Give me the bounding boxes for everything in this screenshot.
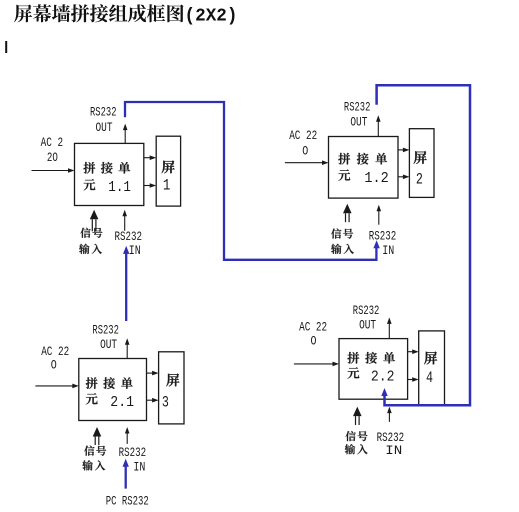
label 信号输入 U1.1	[79, 228, 102, 254]
cursor mark	[5, 41, 7, 53]
svg-text:RS232: RS232	[90, 106, 117, 120]
unit U2.1 label line2 元 2.1	[86, 393, 134, 411]
svg-text:2.2: 2.2	[371, 368, 395, 385]
arrow RS232 IN U2.1	[125, 427, 130, 444]
svg-text:IN: IN	[385, 444, 402, 458]
wire RS232 U2.1-OUT to U1.1-IN	[123, 246, 129, 321]
screen S3 box	[159, 352, 184, 424]
arrow RS232 IN U1.2	[377, 205, 382, 225]
label 信号输入 U2.2	[345, 431, 368, 454]
signal input block-arrow U1.2	[343, 204, 352, 222]
signal input block-arrow U2.1	[93, 427, 102, 445]
svg-text:1.1: 1.1	[108, 179, 131, 196]
svg-text:3: 3	[162, 393, 169, 411]
signal input block-arrow U2.2	[353, 407, 362, 425]
screen S3 label 屏 3	[162, 374, 180, 412]
arrow U1.1 to S1 upper	[144, 155, 156, 160]
wire PC-RS232 to U2.1-IN	[123, 459, 129, 489]
arrow RS232 OUT U2.2	[387, 317, 392, 338]
svg-text:OUT: OUT	[96, 121, 113, 135]
unit U2.2 label line2 元 2.2	[348, 367, 395, 385]
unit U2.2 box	[339, 339, 408, 400]
arrow U2.2 to S4 lower	[408, 377, 419, 382]
label RS232 OUT U2.2	[353, 304, 380, 333]
screen S2 box	[409, 129, 434, 198]
label AC 220 U2.2	[299, 321, 327, 349]
svg-text:RS232: RS232	[115, 230, 143, 244]
label AC 220 U2.1	[41, 345, 69, 372]
unit U1.2 box	[329, 137, 399, 199]
svg-text:AC 2: AC 2	[41, 136, 64, 150]
svg-text:2: 2	[416, 170, 423, 188]
svg-text:O: O	[311, 335, 317, 349]
arrow AC-220 input U2.1	[35, 384, 78, 389]
svg-text:O: O	[302, 145, 308, 159]
label RS232 IN U2.2	[377, 431, 405, 458]
arrow RS232 OUT U2.1	[125, 338, 130, 358]
svg-text:OUT: OUT	[359, 318, 376, 332]
unit U2.1 box	[79, 359, 147, 421]
svg-text:1: 1	[163, 177, 171, 195]
screen S4 label 屏 4	[424, 352, 437, 387]
label 信号输入 U2.1	[82, 446, 106, 471]
label 信号输入 U1.2	[331, 228, 354, 253]
label AC 220 U1.2	[289, 129, 317, 158]
unit U2.1 label line1 拼接单	[86, 377, 133, 389]
wire RS232 U1.1-OUT to U1.2-IN	[125, 102, 380, 260]
label AC 220 U1.1	[41, 136, 64, 165]
arrow AC-220 input U2.2	[294, 362, 339, 367]
arrow RS232 OUT U1.2	[376, 115, 381, 136]
screen S4 box	[419, 331, 445, 406]
svg-text:4: 4	[426, 369, 433, 387]
wire RS232 U1.2-OUT to U2.2-IN	[377, 85, 470, 405]
svg-text:RS232: RS232	[92, 323, 119, 337]
label RS232 OUT U1.1	[90, 106, 117, 136]
arrow RS232 OUT U1.1	[123, 124, 128, 144]
label RS232 OUT U2.1	[92, 323, 119, 351]
svg-text:OUT: OUT	[350, 115, 367, 129]
svg-text:IN: IN	[133, 460, 145, 474]
svg-text:IN: IN	[129, 244, 141, 258]
unit U1.1 label line1 拼接单	[83, 162, 130, 174]
svg-text:RS232: RS232	[377, 431, 405, 445]
svg-text:O: O	[51, 358, 57, 372]
unit U1.2 label line2 元 1.2	[338, 169, 388, 186]
svg-text:PC RS232: PC RS232	[106, 495, 149, 509]
svg-text:1.2: 1.2	[364, 170, 388, 187]
svg-text:AC 22: AC 22	[41, 345, 69, 359]
svg-text:AC 22: AC 22	[299, 321, 327, 335]
unit U1.2 label line1 拼接单	[338, 153, 387, 165]
screen S1 box	[156, 136, 180, 206]
svg-text:RS232: RS232	[344, 101, 371, 115]
label RS232 IN U1.1	[115, 230, 143, 258]
svg-text:RS232: RS232	[353, 304, 380, 318]
svg-text:2.1: 2.1	[110, 394, 134, 411]
arrow U1.1 to S1 lower	[144, 183, 156, 188]
svg-text:IN: IN	[382, 244, 394, 258]
arrow U2.1 to S3 lower	[147, 398, 159, 403]
screen S2 label 屏 2	[414, 151, 427, 188]
title text 屏幕墙拼接组成框图(2X2)	[14, 4, 238, 26]
unit U2.2 label line1 拼接单	[347, 352, 395, 364]
svg-text:AC 22: AC 22	[289, 129, 317, 143]
arrow AC-220 input U1.2	[285, 160, 329, 165]
unit U1.1 label line2 元 1.1	[84, 179, 131, 196]
svg-text:2O: 2O	[47, 151, 58, 165]
label RS232 OUT U1.2	[344, 101, 371, 130]
svg-text:(2X2): (2X2)	[185, 6, 238, 27]
svg-text:RS232: RS232	[119, 446, 147, 460]
arrow RS232 IN U2.2	[387, 407, 392, 422]
label RS232 IN U1.2	[369, 229, 397, 258]
arrow AC-220 input U1.1	[32, 168, 75, 173]
arrow RS232 IN U1.1	[122, 210, 127, 231]
svg-text:OUT: OUT	[100, 338, 117, 352]
arrow U2.1 to S3 upper	[147, 371, 159, 376]
unit U1.1 box	[75, 143, 144, 205]
arrow U1.2 to S2 lower	[398, 175, 409, 180]
screen S1 label 屏 1	[162, 160, 175, 194]
label RS232 IN U2.1	[119, 446, 147, 474]
arrow U2.2 to S4 upper	[408, 349, 419, 354]
label PC RS232	[106, 495, 149, 509]
arrow U1.2 to S2 upper	[398, 148, 409, 153]
svg-text:RS232: RS232	[369, 229, 397, 243]
signal input block-arrow U1.1	[90, 210, 99, 232]
